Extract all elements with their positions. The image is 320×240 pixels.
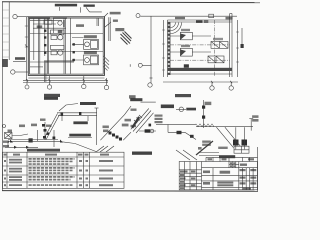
sheet frame xyxy=(2,1,260,4)
row4 xyxy=(4,184,6,186)
pump unit A1 xyxy=(51,30,65,34)
centerlines xyxy=(170,44,230,46)
room walls double xyxy=(28,17,104,76)
left strip boxes xyxy=(2,10,9,57)
valves left plan xyxy=(44,30,75,62)
pump unit B1 xyxy=(84,40,99,50)
bottom bubbles xyxy=(25,85,29,89)
left tank xyxy=(5,133,13,139)
equipment xyxy=(180,32,192,40)
bottom dims/bubbles xyxy=(163,81,238,83)
hatch right of right wall xyxy=(104,56,110,71)
row3 xyxy=(4,178,6,180)
dimension lines xyxy=(25,17,27,80)
axis bubbles left xyxy=(13,14,17,18)
right shaft lines xyxy=(109,17,110,41)
leaders xyxy=(59,7,101,13)
hatch ticks on left wall xyxy=(168,25,171,65)
caption left plan xyxy=(44,94,60,97)
inner pipe verticals xyxy=(39,18,66,74)
caption right plan xyxy=(175,94,191,97)
arcs top-left xyxy=(171,23,182,34)
header cells above xyxy=(206,157,257,161)
texts above room xyxy=(175,17,233,20)
row2 xyxy=(4,170,6,172)
interior clutter pipes xyxy=(30,21,66,29)
valve blobs xyxy=(10,112,122,143)
room walls xyxy=(168,20,233,22)
smudge texts around left plan xyxy=(55,4,95,7)
pipes xyxy=(57,113,97,116)
row1 xyxy=(4,160,6,162)
small 2-row table xyxy=(234,146,249,153)
pump unit B2 xyxy=(84,55,99,65)
mini scale cells xyxy=(229,162,239,168)
dim lines xyxy=(162,20,164,77)
pump unit A2 xyxy=(51,45,65,49)
